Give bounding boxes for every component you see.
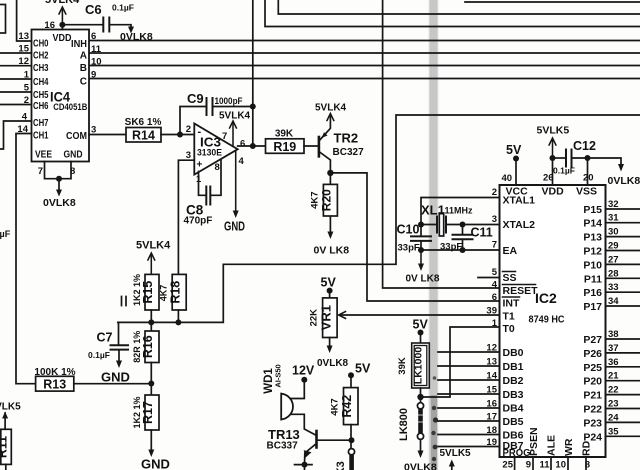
wire net R15 rail to right edge	[118, 115, 640, 322]
IC4 pin numbers	[17, 20, 101, 177]
svg-text:12: 12	[18, 56, 29, 67]
svg-text:BC327: BC327	[333, 147, 365, 158]
svg-text:33pF: 33pF	[398, 243, 420, 254]
svg-text:P17: P17	[583, 301, 602, 313]
net 0V LK8 below C10	[420, 250, 422, 265]
wire IC3 pin3 input	[178, 160, 194, 277]
svg-text:39K: 39K	[397, 357, 408, 375]
net 0VLK8 right of C12	[588, 158, 622, 165]
svg-text:4K7: 4K7	[330, 398, 341, 415]
svg-text:WR: WR	[563, 438, 575, 456]
wire C bus line	[89, 78, 640, 80]
wire DB2 stub	[438, 379, 500, 381]
svg-text:0.1µF: 0.1µF	[112, 3, 134, 13]
capacitor C10 33pF	[411, 225, 431, 251]
capacitor C12	[553, 150, 588, 167]
wire DB0 stub	[438, 351, 500, 353]
svg-text:R17: R17	[141, 401, 155, 424]
svg-text:R10: R10	[0, 9, 3, 29]
svg-text:DB5: DB5	[503, 416, 524, 428]
wire RD pin 8 stub	[585, 457, 587, 470]
svg-text:R14: R14	[132, 129, 155, 143]
potentiometer VR1	[309, 276, 338, 348]
wire CH1 down to R13	[16, 134, 36, 384]
svg-text:GND: GND	[64, 150, 83, 161]
wire DB4 stub	[438, 407, 500, 409]
wire DB6 stub	[438, 434, 500, 436]
net 5VLK5 arrow bottom	[451, 463, 453, 470]
svg-text:P11: P11	[584, 273, 602, 285]
svg-text:P12: P12	[583, 246, 602, 258]
svg-text:GND: GND	[101, 370, 130, 385]
svg-text:COM: COM	[66, 131, 87, 142]
svg-text:2: 2	[186, 124, 191, 135]
svg-text:5V: 5V	[506, 143, 522, 157]
net 5VLK5 above R11	[4, 413, 6, 429]
IC2 left pin numbers	[486, 187, 497, 448]
svg-text:CH4: CH4	[33, 77, 49, 88]
svg-text:7: 7	[492, 240, 497, 251]
svg-text:RESET: RESET	[503, 285, 539, 297]
link LK3 open circle	[348, 449, 354, 455]
svg-text:5VLK4: 5VLK4	[45, 0, 80, 6]
svg-text:10: 10	[555, 460, 566, 470]
svg-text:GND: GND	[141, 457, 170, 470]
svg-text:0VLK8: 0VLK8	[404, 462, 437, 470]
svg-text:P27: P27	[583, 334, 602, 346]
svg-text:PROG: PROG	[503, 447, 531, 459]
node output junction	[250, 143, 256, 149]
svg-text:C11: C11	[471, 226, 493, 240]
svg-text:P15: P15	[583, 204, 602, 216]
wire DB5 stub	[438, 420, 500, 422]
wire INH bus line	[89, 40, 640, 42]
wire A bus line	[89, 52, 640, 54]
svg-text:10: 10	[91, 57, 102, 68]
svg-text:CH1: CH1	[33, 131, 49, 142]
svg-text:BC337: BC337	[267, 441, 299, 452]
overline INT	[503, 296, 520, 298]
net 5VLK4 at IC3 pin 7	[230, 121, 237, 146]
svg-text:DB1: DB1	[503, 361, 524, 373]
wire DB3 stub	[438, 393, 500, 395]
svg-text:9: 9	[91, 70, 96, 81]
resistor R15	[132, 274, 159, 322]
wire PSEN pin 9 stub	[532, 457, 534, 470]
svg-text:R16: R16	[141, 335, 155, 358]
resistor R19	[266, 129, 305, 154]
svg-text:R13: R13	[43, 378, 66, 392]
svg-text:INH: INH	[71, 39, 87, 50]
svg-text:1K2 1%: 1K2 1%	[132, 396, 142, 428]
svg-text:11: 11	[91, 44, 102, 55]
svg-text:P16: P16	[583, 287, 602, 299]
svg-text:SS: SS	[503, 272, 517, 284]
wire vertical to C9 node and IC3 output	[252, 0, 254, 146]
svg-text:R15: R15	[141, 281, 155, 304]
svg-text:5VLK5: 5VLK5	[440, 448, 472, 459]
net 0V LK8 below R20	[327, 232, 333, 240]
svg-text:LK3: LK3	[335, 461, 347, 470]
svg-text:22K: 22K	[309, 309, 320, 327]
node pin2 junction	[177, 132, 183, 138]
node C9 right junction	[250, 104, 256, 110]
node TR2 collector junction	[327, 170, 333, 176]
IC2 top pin numbers	[502, 173, 594, 185]
svg-text:C9: C9	[187, 91, 204, 106]
svg-text:A: A	[80, 51, 87, 62]
pin SS stub	[478, 277, 500, 279]
IC2 right pin numbers	[608, 199, 619, 437]
svg-text:P26: P26	[583, 348, 602, 360]
svg-text:DB0: DB0	[503, 347, 524, 359]
svg-text:1: 1	[492, 318, 498, 329]
svg-text:VEE: VEE	[35, 150, 52, 161]
overline SS	[503, 271, 516, 273]
svg-text:CD4051B: CD4051B	[53, 102, 87, 112]
crystal XL1 11MHz	[421, 213, 463, 236]
svg-text:40: 40	[502, 173, 513, 184]
svg-text:XTAL1: XTAL1	[503, 195, 536, 207]
IC2 bottom pin numbers	[502, 460, 590, 470]
wire VR1 wiper from T1	[341, 314, 500, 316]
node R42 TR13 base junction	[349, 437, 355, 443]
wire collector to INT	[330, 173, 499, 301]
svg-text:5: 5	[492, 267, 498, 278]
svg-text:CH7: CH7	[33, 118, 49, 129]
svg-text:DB2: DB2	[503, 375, 524, 387]
capacitor C8 between pins 1 and 8	[199, 160, 222, 205]
wire bus top line	[465, 1, 640, 3]
net GND below C7	[116, 361, 122, 369]
svg-text:6: 6	[91, 31, 96, 42]
svg-text:0VLK8: 0VLK8	[317, 358, 349, 369]
node VDD junction	[550, 155, 556, 161]
svg-text:CH2: CH2	[33, 51, 49, 62]
svg-text:DB4: DB4	[503, 403, 524, 415]
svg-text:RD: RD	[581, 440, 593, 456]
wire vertical to RESET	[383, 0, 500, 288]
link LK1000 39K	[397, 333, 429, 404]
resistor R17	[132, 384, 159, 452]
net 5VLK4 above R15	[148, 253, 155, 274]
svg-text:PSEN: PSEN	[528, 427, 540, 456]
wire P24	[606, 435, 640, 437]
resistor R11	[0, 429, 11, 470]
wire VCC pin 40	[515, 159, 517, 186]
svg-text:CH0: CH0	[33, 39, 49, 50]
wire P15	[606, 208, 640, 210]
svg-text:VDD: VDD	[53, 33, 72, 44]
wire P25	[606, 366, 640, 368]
svg-text:DB3: DB3	[503, 389, 524, 401]
svg-text:7: 7	[38, 166, 43, 177]
wire P27	[606, 338, 640, 340]
capacitor C7	[111, 322, 129, 362]
node VEE GND junction	[56, 176, 62, 182]
wire DB7 stub	[438, 446, 500, 448]
svg-text:P21: P21	[583, 390, 602, 402]
svg-text:100K 1%: 100K 1%	[34, 367, 75, 378]
svg-text:P23: P23	[583, 417, 602, 429]
svg-text:5VLK4: 5VLK4	[136, 240, 171, 252]
wire VDD pin 16	[61, 25, 63, 30]
svg-text:AI-S50: AI-S50	[274, 364, 283, 387]
svg-text:5VLK4: 5VLK4	[315, 103, 347, 114]
resistor R14	[125, 117, 162, 143]
svg-text:39K: 39K	[275, 129, 294, 140]
node C11 bottom	[460, 247, 466, 253]
svg-text:5: 5	[24, 83, 30, 94]
net 0VLK8 below LK800	[418, 451, 424, 459]
stray mark II left of R15	[122, 297, 127, 306]
svg-text:6: 6	[492, 292, 497, 303]
net GND at IC3 pin 4	[235, 151, 237, 212]
scan fold band	[427, 0, 440, 470]
svg-text:CH5: CH5	[33, 90, 49, 101]
svg-text:470pF: 470pF	[184, 216, 213, 227]
buzzer WD1	[263, 364, 293, 419]
node crystal left	[418, 222, 424, 228]
net 0VLK8 below VR1	[327, 346, 333, 354]
resistor R18	[159, 274, 187, 322]
svg-text:T0: T0	[503, 323, 515, 335]
resistor R13	[34, 367, 151, 392]
svg-text:82R 1%: 82R 1%	[132, 331, 142, 363]
svg-text:2: 2	[24, 95, 29, 106]
svg-text:5VLK5: 5VLK5	[537, 125, 570, 137]
svg-text:R11: R11	[0, 436, 9, 458]
wire CH0 to top edge	[17, 0, 32, 41]
svg-text:5V: 5V	[355, 362, 371, 376]
wire bus line 3 with corner	[265, 0, 640, 27]
wire R14 to IC3 pin 2	[161, 134, 194, 136]
wire XTAL1 pin 2	[421, 198, 500, 225]
wire ALE pin 11 stub	[550, 457, 552, 470]
svg-text:2: 2	[492, 187, 497, 198]
wire XTAL2 pin 3	[463, 224, 500, 226]
svg-text:0VLK8: 0VLK8	[608, 175, 640, 187]
node emitter junction	[302, 462, 308, 468]
node R15 bottom junction	[148, 319, 154, 325]
svg-text:4: 4	[239, 156, 245, 167]
svg-text:0VLK8: 0VLK8	[120, 31, 153, 43]
svg-text:B: B	[80, 63, 87, 74]
svg-text:5VLK5: 5VLK5	[0, 401, 21, 412]
wire IC3 output	[238, 145, 266, 147]
svg-text:11MHz: 11MHz	[445, 206, 474, 216]
node R16 R13 R17 junction	[148, 381, 154, 387]
node LK1000 bottom junction	[417, 394, 423, 400]
net GND below R17	[148, 450, 154, 458]
capacitor C9 feedback	[180, 98, 253, 135]
svg-text:5VLK4: 5VLK4	[219, 111, 251, 122]
svg-text:P20: P20	[583, 376, 602, 388]
svg-text:CH3: CH3	[33, 63, 49, 74]
wire P10	[606, 263, 640, 265]
capacitor C6	[62, 18, 131, 32]
resistor R16	[132, 322, 159, 383]
wire CH3 input	[0, 65, 32, 67]
svg-text:EA: EA	[503, 245, 518, 257]
svg-text:P13: P13	[583, 232, 602, 244]
svg-text:1000pF: 1000pF	[215, 96, 243, 107]
wire junction to T0	[421, 327, 500, 397]
wire P26	[606, 352, 640, 354]
node crystal right	[460, 222, 466, 228]
wire P14	[606, 222, 640, 224]
svg-text:R20: R20	[320, 189, 334, 211]
svg-text:20: 20	[583, 173, 594, 184]
node R18 bottom junction	[175, 319, 181, 325]
svg-text:9: 9	[526, 460, 531, 470]
svg-text:R19: R19	[273, 140, 296, 154]
wire bus line 2 with corner	[278, 0, 640, 14]
overline RESET	[503, 284, 536, 286]
wire P20	[606, 380, 640, 382]
svg-text:0V LK8: 0V LK8	[406, 274, 440, 285]
svg-text:P14: P14	[583, 218, 602, 230]
svg-text:ALE: ALE	[546, 435, 558, 456]
svg-text:7: 7	[222, 131, 227, 142]
svg-text:VSS: VSS	[576, 186, 597, 198]
svg-text:8749 HC: 8749 HC	[529, 314, 565, 326]
net 0VLK8 below IC4	[56, 190, 62, 197]
wire P17	[606, 305, 640, 307]
svg-text:0VLK8: 0VLK8	[43, 197, 76, 209]
wire P11	[606, 277, 640, 279]
wire P16	[606, 291, 640, 293]
svg-text:INT: INT	[503, 298, 521, 310]
svg-text:16: 16	[44, 20, 55, 31]
wire P21	[606, 394, 640, 396]
resistor R42	[330, 375, 359, 448]
svg-text:GND: GND	[224, 220, 245, 234]
op-amp IC3 3130E	[194, 124, 237, 175]
svg-text:25: 25	[502, 460, 513, 470]
svg-text:12V: 12V	[292, 364, 315, 378]
IC2 8749 HC body	[500, 185, 606, 457]
wire P12	[606, 250, 640, 252]
link LK800	[398, 403, 424, 452]
wire emitter rail at bottom	[295, 465, 313, 470]
capacitor C11 33pF	[453, 225, 473, 251]
node VDD junction	[59, 22, 65, 28]
svg-text:3: 3	[492, 214, 497, 225]
wire ground rail to EA pin 7	[421, 249, 500, 251]
wire CH7 to left edge	[0, 121, 32, 149]
net 5VLK4 arrow above IC4	[59, 7, 66, 25]
svg-text:6: 6	[240, 139, 245, 150]
svg-text:11: 11	[539, 460, 550, 470]
transistor TR13 BC337	[305, 431, 352, 465]
svg-text:P22: P22	[583, 404, 602, 416]
wire P13	[606, 236, 640, 238]
svg-text:+: +	[197, 160, 203, 171]
net 5VLK5 at IC2 VDD	[549, 138, 556, 158]
svg-text:LK1000: LK1000	[412, 347, 424, 385]
wire VSS pin 20	[587, 158, 589, 185]
wire CH5 input	[0, 91, 32, 93]
svg-text:0V LK8: 0V LK8	[314, 245, 350, 257]
IC2 left pin names	[503, 195, 539, 460]
svg-text:0.1µF: 0.1µF	[88, 350, 110, 360]
wire R19 to TR2 base	[304, 145, 318, 147]
svg-text:P25: P25	[583, 362, 602, 374]
svg-text:XTAL2: XTAL2	[503, 219, 536, 231]
resistor R20	[310, 173, 338, 233]
wire P22	[606, 408, 640, 410]
svg-text:C6: C6	[85, 2, 102, 17]
transistor TR2 BC327	[319, 115, 331, 173]
svg-text:8: 8	[585, 460, 590, 470]
svg-text:C: C	[80, 77, 87, 88]
wire B bus line	[89, 65, 640, 67]
svg-text:C10: C10	[397, 223, 420, 237]
node C10 bottom	[418, 247, 424, 253]
svg-text:TR2: TR2	[334, 131, 359, 146]
svg-text:1: 1	[24, 70, 30, 81]
svg-text:0.1µF: 0.1µF	[553, 166, 575, 176]
wire CH6 input	[0, 104, 32, 106]
wire DB1 stub	[438, 365, 500, 367]
svg-text:39: 39	[486, 306, 497, 317]
wire CH4 input	[0, 78, 32, 80]
svg-text:R42: R42	[340, 395, 354, 418]
svg-text:5V: 5V	[413, 318, 429, 332]
svg-text:4: 4	[492, 280, 498, 291]
svg-text:C12: C12	[573, 139, 596, 153]
IC2 right pin names	[583, 204, 602, 443]
TR2 PNP emitter arrow	[322, 132, 328, 138]
wire 12V to WD1 top pin	[291, 380, 304, 399]
svg-text:4K7: 4K7	[159, 285, 169, 302]
svg-text:VDD: VDD	[542, 186, 565, 198]
wire COM to R14	[89, 134, 126, 136]
node VSS junction	[585, 155, 591, 161]
svg-text:VR1: VR1	[318, 305, 333, 330]
wire PROG pin 25 stub	[514, 457, 516, 470]
link LK3 body	[349, 455, 354, 470]
svg-text:SK6 1%: SK6 1%	[125, 117, 162, 128]
wire WD1 bottom pin to TR13 collector	[291, 414, 316, 435]
net 5VLK4 at TR2 emitter	[327, 114, 334, 121]
wire WR pin 10 stub	[567, 457, 569, 470]
net 0VLK8 below C6	[128, 27, 134, 34]
svg-text:CH6: CH6	[33, 101, 49, 112]
svg-text:8: 8	[215, 162, 220, 173]
svg-text:3130E: 3130E	[197, 148, 222, 158]
wire VEE GND to ground	[45, 162, 72, 193]
svg-text:15: 15	[18, 44, 29, 55]
svg-text:P10: P10	[583, 259, 602, 271]
svg-text:5V: 5V	[321, 276, 337, 290]
svg-text:C7: C7	[97, 331, 113, 345]
svg-text:LK800: LK800	[398, 408, 410, 441]
resistor fragment top-left corner	[0, 5, 6, 34]
svg-text:0.1µF: 0.1µF	[0, 229, 11, 239]
TR13 NPN emitter arrow	[304, 450, 312, 458]
svg-text:XL1: XL1	[421, 203, 445, 218]
wire P23	[606, 421, 640, 423]
IC4 CD4051B body	[32, 30, 90, 162]
svg-text:1K2 1%: 1K2 1%	[132, 274, 142, 306]
svg-text:T1: T1	[503, 311, 515, 323]
svg-text:R18: R18	[168, 281, 182, 304]
wire VDD pin 26	[552, 158, 554, 185]
svg-text:26: 26	[543, 173, 554, 184]
svg-text:IC2: IC2	[535, 290, 557, 306]
